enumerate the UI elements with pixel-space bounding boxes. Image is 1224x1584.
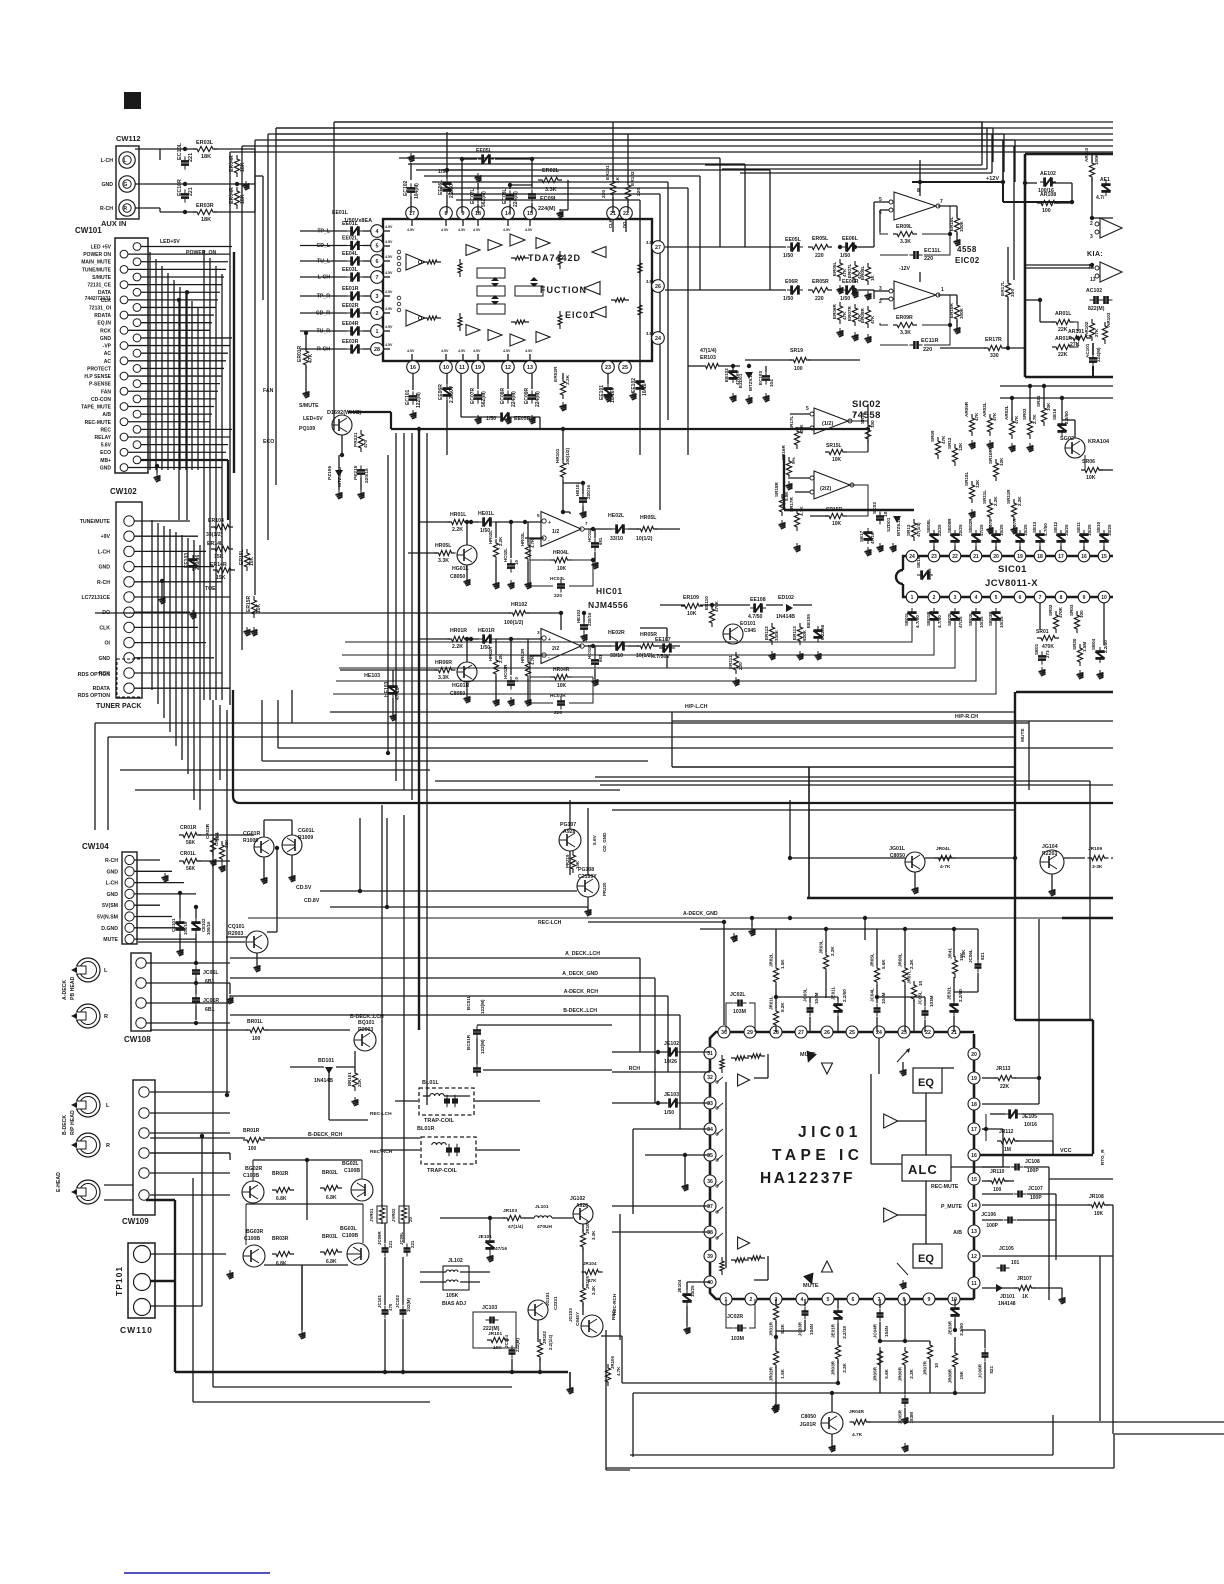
svg-text:EIC02: EIC02 bbox=[955, 256, 980, 265]
svg-text:HE103: HE103 bbox=[364, 673, 380, 679]
svg-text:104: 104 bbox=[769, 379, 774, 387]
svg-text:GND: GND bbox=[101, 182, 113, 188]
svg-text:TP101: TP101 bbox=[114, 1266, 124, 1296]
svg-text:TDA7442D: TDA7442D bbox=[528, 253, 581, 263]
svg-text:SR20: SR20 bbox=[1072, 638, 1077, 650]
svg-text:JG102: JG102 bbox=[570, 1196, 585, 1202]
svg-text:25: 25 bbox=[622, 365, 628, 371]
svg-text:HR03R: HR03R bbox=[520, 648, 525, 663]
svg-text:HR02R: HR02R bbox=[488, 646, 493, 661]
svg-text:JR02R: JR02R bbox=[769, 1366, 774, 1381]
svg-text:BG03R: BG03R bbox=[246, 1229, 264, 1235]
svg-text:ER101: ER101 bbox=[605, 165, 611, 180]
svg-text:A_DECK..LCH: A_DECK..LCH bbox=[565, 951, 600, 957]
svg-text:SE10: SE10 bbox=[1096, 521, 1101, 533]
svg-text:EE06R: EE06R bbox=[842, 279, 859, 285]
svg-text:4.5V: 4.5V bbox=[473, 228, 481, 232]
svg-text:100: 100 bbox=[870, 420, 875, 428]
svg-text:CR01R: CR01R bbox=[180, 825, 197, 831]
svg-text:7: 7 bbox=[585, 521, 588, 526]
svg-text:22: 22 bbox=[952, 554, 958, 560]
svg-text:AE102: AE102 bbox=[1040, 171, 1056, 177]
svg-text:33: 33 bbox=[707, 1101, 713, 1107]
svg-text:7: 7 bbox=[940, 199, 943, 205]
svg-text:19: 19 bbox=[475, 365, 481, 371]
svg-text:JC105: JC105 bbox=[999, 1246, 1014, 1252]
svg-text:220: 220 bbox=[815, 253, 824, 259]
svg-text:CE101: CE101 bbox=[171, 918, 176, 932]
svg-text:JE01L: JE01L bbox=[831, 986, 836, 1000]
svg-text:H.P SENSE: H.P SENSE bbox=[84, 374, 111, 380]
svg-text:C100B: C100B bbox=[342, 1233, 358, 1239]
svg-text:BG02L: BG02L bbox=[342, 1161, 360, 1167]
svg-text:47K: 47K bbox=[870, 315, 875, 324]
svg-text:5.6V: 5.6V bbox=[592, 834, 598, 845]
svg-text:HE01R: HE01R bbox=[478, 628, 495, 634]
svg-text:RDATA: RDATA bbox=[94, 313, 111, 319]
svg-text:7: 7 bbox=[376, 275, 379, 281]
svg-text:27: 27 bbox=[655, 245, 661, 251]
svg-text:18K: 18K bbox=[201, 154, 211, 160]
svg-text:+: + bbox=[548, 637, 551, 643]
svg-text:BQ101: BQ101 bbox=[358, 1020, 375, 1026]
svg-text:HR101: HR101 bbox=[555, 448, 560, 463]
svg-text:JR109: JR109 bbox=[1088, 846, 1102, 852]
svg-text:220: 220 bbox=[601, 190, 607, 198]
svg-text:330: 330 bbox=[1010, 289, 1016, 297]
svg-text:47K: 47K bbox=[1014, 415, 1019, 424]
svg-text:GND: GND bbox=[106, 869, 118, 875]
svg-text:JG103: JG103 bbox=[568, 1308, 573, 1322]
svg-text:C8050: C8050 bbox=[450, 691, 465, 697]
svg-text:EE107: EE107 bbox=[655, 637, 671, 643]
svg-text:5%: 5% bbox=[791, 457, 796, 464]
svg-text:5: 5 bbox=[537, 513, 540, 518]
svg-text:JC108: JC108 bbox=[1025, 1159, 1040, 1165]
svg-text:47(1/4): 47(1/4) bbox=[700, 348, 717, 354]
svg-text:100: 100 bbox=[993, 1187, 1002, 1193]
svg-text:HE02R: HE02R bbox=[608, 630, 625, 636]
svg-text:EC08L: EC08L bbox=[502, 188, 508, 204]
svg-text:R-CH: R-CH bbox=[317, 347, 330, 353]
svg-text:6.8K: 6.8K bbox=[276, 1196, 287, 1202]
svg-text:JR04R: JR04R bbox=[849, 1409, 864, 1415]
svg-text:220: 220 bbox=[815, 296, 824, 302]
svg-text:ER06R: ER06R bbox=[832, 304, 837, 319]
svg-text:8: 8 bbox=[1060, 595, 1063, 601]
svg-text:SE17: SE17 bbox=[859, 530, 864, 542]
svg-text:33(1/2): 33(1/2) bbox=[206, 532, 223, 538]
svg-text:BR03L: BR03L bbox=[322, 1234, 338, 1240]
svg-text:HR02L: HR02L bbox=[488, 530, 493, 544]
svg-text:2.2/50: 2.2/50 bbox=[958, 989, 963, 1002]
svg-text:ER08L: ER08L bbox=[860, 266, 865, 280]
svg-text:ER102: ER102 bbox=[630, 171, 636, 186]
svg-text:2.2K: 2.2K bbox=[452, 527, 463, 533]
svg-text:JR108: JR108 bbox=[1089, 1194, 1104, 1200]
svg-text:KRA104: KRA104 bbox=[1088, 439, 1110, 445]
svg-text:CD_L: CD_L bbox=[316, 243, 330, 249]
svg-text:100P: 100P bbox=[1027, 1168, 1039, 1174]
svg-text:16: 16 bbox=[1081, 554, 1087, 560]
svg-text:H/P-R.CH: H/P-R.CH bbox=[955, 714, 978, 720]
svg-text:ER112: ER112 bbox=[764, 626, 769, 640]
svg-text:RDATA: RDATA bbox=[93, 686, 111, 692]
svg-text:EE102: EE102 bbox=[724, 368, 729, 382]
svg-text:22K: 22K bbox=[1058, 327, 1068, 333]
svg-text:1.5K: 1.5K bbox=[780, 1368, 785, 1378]
svg-text:4: 4 bbox=[801, 1297, 804, 1303]
svg-text:104M: 104M bbox=[814, 992, 819, 1004]
svg-text:SZD01: SZD01 bbox=[886, 517, 891, 532]
svg-text:CG01R: CG01R bbox=[243, 831, 261, 837]
svg-text:122(M): 122(M) bbox=[480, 999, 485, 1014]
svg-text:RTG_R: RTG_R bbox=[1100, 1149, 1105, 1165]
svg-text:TAPE_MUTE: TAPE_MUTE bbox=[81, 405, 112, 411]
svg-text:4.5V: 4.5V bbox=[525, 349, 533, 353]
svg-text:23: 23 bbox=[605, 365, 611, 371]
svg-text:10/25: 10/25 bbox=[999, 616, 1004, 628]
svg-text:1/50: 1/50 bbox=[664, 1110, 674, 1116]
svg-text:FAN: FAN bbox=[101, 389, 111, 395]
svg-text:B-DECK_RCH: B-DECK_RCH bbox=[540, 1021, 542, 1022]
svg-text:28: 28 bbox=[374, 347, 380, 353]
svg-text:920K: 920K bbox=[802, 629, 807, 641]
svg-text:TP_R: TP_R bbox=[317, 294, 331, 300]
svg-text:22: 22 bbox=[925, 1030, 931, 1036]
svg-text:JE105: JE105 bbox=[1022, 1114, 1037, 1120]
svg-text:3.5V: 3.5V bbox=[646, 331, 655, 336]
svg-text:220: 220 bbox=[738, 662, 743, 670]
svg-text:SE04: SE04 bbox=[1091, 638, 1096, 650]
svg-text:BG02R: BG02R bbox=[245, 1166, 263, 1172]
svg-text:L-CH: L-CH bbox=[101, 158, 114, 164]
svg-text:10K: 10K bbox=[1046, 402, 1051, 411]
svg-text:5: 5 bbox=[995, 595, 998, 601]
svg-text:ER10R: ER10R bbox=[949, 303, 954, 318]
svg-text:EE06L: EE06L bbox=[438, 180, 444, 195]
svg-text:33/10: 33/10 bbox=[610, 653, 623, 659]
svg-text:2.2K: 2.2K bbox=[1017, 496, 1022, 506]
svg-text:470UH: 470UH bbox=[537, 1224, 552, 1230]
svg-text:2: 2 bbox=[879, 299, 882, 305]
svg-text:PROTECT: PROTECT bbox=[87, 366, 111, 372]
svg-text:ER02L: ER02L bbox=[542, 168, 560, 174]
svg-text:SE11: SE11 bbox=[1076, 522, 1081, 533]
svg-text:9: 9 bbox=[1083, 595, 1086, 601]
svg-text:3.3K: 3.3K bbox=[900, 239, 911, 245]
svg-text:EC11R: EC11R bbox=[921, 338, 938, 344]
svg-text:SE02L: SE02L bbox=[947, 612, 952, 626]
svg-text:SIC02: SIC02 bbox=[852, 399, 881, 410]
svg-text:A/B: A/B bbox=[953, 1230, 962, 1236]
svg-text:15K: 15K bbox=[216, 575, 226, 581]
svg-text:4.7/: 4.7/ bbox=[1096, 195, 1105, 201]
svg-text:222(M): 222(M) bbox=[515, 1338, 520, 1352]
svg-text:GND: GND bbox=[100, 465, 112, 471]
svg-text:10/25: 10/25 bbox=[690, 1285, 695, 1297]
svg-text:JC09R: JC09R bbox=[377, 1231, 382, 1245]
svg-text:AR02L: AR02L bbox=[1004, 405, 1009, 420]
svg-text:C945Y: C945Y bbox=[575, 1312, 580, 1326]
svg-text:JE01R: JE01R bbox=[831, 1323, 836, 1338]
svg-text:221: 221 bbox=[188, 153, 194, 162]
svg-text:12K: 12K bbox=[975, 479, 980, 488]
svg-text:221: 221 bbox=[388, 1240, 393, 1248]
svg-text:BC01R: BC01R bbox=[466, 1034, 471, 1050]
svg-text:100: 100 bbox=[794, 366, 803, 372]
svg-text:EC103: EC103 bbox=[758, 371, 763, 385]
svg-text:KIA:: KIA: bbox=[1087, 251, 1103, 258]
svg-text:JIC01: JIC01 bbox=[798, 1124, 862, 1141]
svg-text:EE01L: EE01L bbox=[332, 210, 349, 216]
svg-text:ER09R: ER09R bbox=[896, 315, 913, 321]
svg-text:5.6K: 5.6K bbox=[881, 959, 886, 969]
svg-text:0.22/50: 0.22/50 bbox=[820, 624, 825, 640]
svg-text:CD-CON: CD-CON bbox=[91, 397, 111, 403]
svg-text:TRAP-COIL: TRAP-COIL bbox=[424, 1118, 455, 1124]
svg-text:TAPE IC: TAPE IC bbox=[772, 1147, 864, 1164]
svg-text:JR103: JR103 bbox=[503, 1208, 517, 1214]
svg-text:EE06L: EE06L bbox=[842, 236, 859, 242]
svg-text:AR110: AR110 bbox=[1084, 148, 1089, 162]
svg-text:POWER_ON: POWER_ON bbox=[186, 250, 217, 256]
svg-text:EC09L: EC09L bbox=[540, 196, 558, 202]
svg-text:TOE: TOE bbox=[205, 586, 216, 592]
svg-text:47/25: 47/25 bbox=[979, 524, 984, 536]
svg-text:17: 17 bbox=[1058, 554, 1064, 560]
svg-text:13: 13 bbox=[1090, 277, 1096, 283]
svg-text:PQ109: PQ109 bbox=[299, 426, 315, 432]
svg-text:R1009: R1009 bbox=[243, 838, 258, 844]
svg-text:220/16: 220/16 bbox=[587, 612, 592, 626]
svg-text:3.3K: 3.3K bbox=[591, 1230, 596, 1240]
svg-text:R2203: R2203 bbox=[1042, 851, 1057, 857]
svg-text:EC07R: EC07R bbox=[470, 387, 476, 404]
svg-text:4.7/50: 4.7/50 bbox=[748, 614, 763, 620]
svg-text:18K: 18K bbox=[240, 162, 246, 172]
svg-text:4.7/50: 4.7/50 bbox=[915, 615, 920, 628]
svg-text:20: 20 bbox=[993, 554, 999, 560]
svg-text:JG01L: JG01L bbox=[889, 846, 906, 852]
svg-text:40: 40 bbox=[707, 1280, 713, 1286]
svg-text:HC03R: HC03R bbox=[550, 693, 566, 699]
svg-text:4.5V: 4.5V bbox=[503, 228, 511, 232]
svg-text:10K: 10K bbox=[832, 521, 842, 527]
svg-text:A928: A928 bbox=[563, 829, 576, 835]
svg-text:10K: 10K bbox=[557, 683, 567, 689]
svg-text:CQ101: CQ101 bbox=[228, 924, 245, 930]
svg-text:BC01L: BC01L bbox=[466, 995, 471, 1010]
svg-text:-12V: -12V bbox=[899, 266, 910, 272]
svg-text:JG101: JG101 bbox=[545, 1292, 550, 1306]
svg-text:H/P-L.CH: H/P-L.CH bbox=[685, 704, 708, 710]
svg-text:R: R bbox=[124, 206, 128, 212]
svg-text:10: 10 bbox=[934, 1363, 939, 1369]
svg-text:REC-LCH: REC-LCH bbox=[538, 920, 562, 926]
svg-text:BR02L: BR02L bbox=[322, 1170, 338, 1176]
svg-text:L: L bbox=[104, 968, 108, 974]
svg-text:SE16: SE16 bbox=[1052, 408, 1057, 420]
svg-text:4.5V: 4.5V bbox=[458, 349, 466, 353]
svg-text:JR113: JR113 bbox=[996, 1066, 1011, 1072]
svg-text:JR41: JR41 bbox=[948, 948, 953, 959]
svg-text:EC08R: EC08R bbox=[500, 387, 506, 404]
svg-text:224(M): 224(M) bbox=[535, 391, 541, 407]
svg-text:(1/2): (1/2) bbox=[822, 421, 833, 427]
svg-text:100: 100 bbox=[1079, 610, 1084, 618]
svg-text:EE01R: EE01R bbox=[342, 286, 359, 292]
svg-text:HR01L: HR01L bbox=[450, 512, 467, 518]
svg-text:220: 220 bbox=[554, 593, 562, 599]
svg-text:C8050: C8050 bbox=[801, 1414, 816, 1420]
svg-text:10/16: 10/16 bbox=[642, 383, 648, 396]
svg-text:4: 4 bbox=[975, 595, 978, 601]
svg-text:4.5V: 4.5V bbox=[385, 343, 393, 347]
svg-text:L: L bbox=[106, 1103, 110, 1109]
svg-text:JC05L: JC05L bbox=[918, 991, 923, 1005]
svg-text:JR106: JR106 bbox=[610, 1356, 615, 1369]
svg-text:POWER ON: POWER ON bbox=[83, 252, 111, 258]
svg-text:MUTE: MUTE bbox=[803, 1283, 819, 1289]
svg-text:27K: 27K bbox=[1094, 328, 1099, 337]
svg-text:10/25: 10/25 bbox=[1064, 524, 1069, 536]
svg-text:S/MUTE: S/MUTE bbox=[299, 403, 319, 409]
svg-text:JR07L: JR07L bbox=[907, 970, 912, 984]
svg-text:BR03R: BR03R bbox=[272, 1236, 289, 1242]
svg-text:JL102: JL102 bbox=[448, 1258, 463, 1264]
svg-text:JVR02: JVR02 bbox=[391, 1208, 396, 1222]
svg-text:EC102: EC102 bbox=[403, 180, 409, 196]
svg-text:HC01L: HC01L bbox=[587, 528, 592, 542]
svg-text:2.2K: 2.2K bbox=[842, 1362, 847, 1372]
svg-text:26: 26 bbox=[655, 284, 661, 290]
svg-text:AR102: AR102 bbox=[1084, 321, 1089, 336]
svg-text:100K: 100K bbox=[959, 307, 964, 319]
svg-text:AR01L: AR01L bbox=[1055, 311, 1072, 317]
svg-text:R-CH: R-CH bbox=[105, 858, 118, 864]
svg-text:1K: 1K bbox=[615, 176, 621, 183]
svg-text:SR18: SR18 bbox=[860, 412, 865, 424]
svg-text:EE109: EE109 bbox=[806, 614, 811, 628]
svg-text:20: 20 bbox=[408, 1217, 413, 1222]
svg-text:TU_L: TU_L bbox=[317, 259, 331, 265]
svg-text:10K: 10K bbox=[575, 860, 580, 869]
svg-text:10K: 10K bbox=[687, 611, 697, 617]
svg-text:HR05L: HR05L bbox=[435, 543, 452, 549]
svg-text:10K: 10K bbox=[832, 457, 842, 463]
svg-text:681: 681 bbox=[598, 537, 603, 545]
svg-text:21: 21 bbox=[973, 554, 979, 560]
svg-text:4.5V: 4.5V bbox=[385, 271, 393, 275]
svg-text:R/P HEAD: R/P HEAD bbox=[70, 1110, 76, 1135]
svg-text:ER17L: ER17L bbox=[1000, 281, 1006, 296]
svg-text:JR105: JR105 bbox=[585, 1276, 590, 1289]
svg-text:13: 13 bbox=[971, 1229, 977, 1235]
svg-text:3-3K: 3-3K bbox=[1092, 864, 1103, 870]
svg-text:JR03L: JR03L bbox=[819, 940, 824, 954]
svg-text:AUX IN: AUX IN bbox=[101, 219, 126, 228]
svg-text:47(1/4): 47(1/4) bbox=[916, 522, 921, 537]
svg-text:AR101: AR101 bbox=[1068, 329, 1084, 335]
svg-text:JC06L: JC06L bbox=[968, 949, 973, 963]
svg-text:104(M): 104(M) bbox=[414, 183, 420, 199]
svg-text:B-DECK_RCH: B-DECK_RCH bbox=[308, 1132, 343, 1138]
svg-text:C100B: C100B bbox=[344, 1168, 360, 1174]
svg-text:4.5V: 4.5V bbox=[385, 325, 393, 329]
svg-text:10/26: 10/26 bbox=[664, 1059, 677, 1065]
svg-text:4.7/50V: 4.7/50V bbox=[652, 654, 670, 660]
svg-text:102(M): 102(M) bbox=[406, 1298, 411, 1312]
svg-text:821: 821 bbox=[989, 1366, 994, 1374]
svg-text:4.5V: 4.5V bbox=[503, 349, 511, 353]
svg-text:LED+5V: LED+5V bbox=[160, 239, 180, 245]
svg-text:A-DECK_RCH: A-DECK_RCH bbox=[564, 989, 599, 995]
svg-text:JR02L: JR02L bbox=[769, 953, 774, 967]
svg-text:EE103: EE103 bbox=[184, 553, 190, 568]
svg-text:14: 14 bbox=[971, 1203, 977, 1209]
svg-text:32: 32 bbox=[707, 1075, 713, 1081]
svg-text:15: 15 bbox=[1101, 554, 1107, 560]
svg-text:6: 6 bbox=[852, 1297, 855, 1303]
svg-text:MUTE: MUTE bbox=[800, 1052, 816, 1058]
svg-text:100P: 100P bbox=[1030, 1195, 1042, 1201]
svg-text:4.5V: 4.5V bbox=[441, 228, 449, 232]
svg-text:HE02L: HE02L bbox=[608, 513, 625, 519]
svg-text:BL01L: BL01L bbox=[422, 1080, 439, 1086]
svg-text:BIAS ADJ: BIAS ADJ bbox=[442, 1301, 466, 1307]
svg-text:15K: 15K bbox=[959, 1370, 964, 1379]
svg-text:EQ: EQ bbox=[918, 1253, 934, 1265]
svg-text:REC-LCH: REC-LCH bbox=[370, 1111, 392, 1117]
svg-text:L-CH: L-CH bbox=[98, 549, 111, 555]
svg-text:ECO: ECO bbox=[100, 450, 111, 456]
svg-text:EE03R: EE03R bbox=[342, 339, 359, 345]
svg-text:330: 330 bbox=[990, 353, 999, 359]
svg-text:3: 3 bbox=[954, 595, 957, 601]
svg-text:8.2K: 8.2K bbox=[780, 1323, 785, 1333]
svg-text:37: 37 bbox=[707, 1204, 713, 1210]
svg-text:MB+: MB+ bbox=[100, 458, 111, 464]
svg-text:NJM4556: NJM4556 bbox=[588, 600, 628, 610]
svg-text:224(M): 224(M) bbox=[1096, 347, 1101, 362]
svg-text:6: 6 bbox=[376, 259, 379, 265]
svg-text:5V(SM: 5V(SM bbox=[102, 903, 118, 909]
svg-text:SR10L: SR10L bbox=[964, 472, 969, 486]
svg-text:ER09L: ER09L bbox=[896, 224, 913, 230]
svg-text:3.3K: 3.3K bbox=[591, 1285, 596, 1295]
svg-text:220: 220 bbox=[636, 188, 642, 196]
svg-text:JC101: JC101 bbox=[377, 1295, 382, 1308]
svg-text:5.6V: 5.6V bbox=[101, 443, 112, 449]
svg-text:SR11R: SR11R bbox=[1006, 489, 1011, 504]
svg-text:3.3K: 3.3K bbox=[438, 558, 449, 564]
svg-text:100(1/2): 100(1/2) bbox=[565, 447, 570, 465]
svg-text:CG01L: CG01L bbox=[298, 828, 316, 834]
svg-text:A/B: A/B bbox=[102, 412, 111, 418]
svg-text:CW108: CW108 bbox=[124, 1035, 151, 1044]
svg-text:R-CH: R-CH bbox=[97, 580, 110, 586]
svg-text:2/2: 2/2 bbox=[552, 646, 559, 652]
svg-text:+12V: +12V bbox=[986, 176, 999, 182]
svg-text:ER110: ER110 bbox=[704, 596, 709, 610]
svg-text:BR01L: BR01L bbox=[247, 1019, 263, 1025]
svg-text:TUNER PACK: TUNER PACK bbox=[96, 703, 141, 710]
svg-text:SR19: SR19 bbox=[790, 348, 803, 354]
svg-text:A928: A928 bbox=[576, 1203, 588, 1209]
svg-text:103M: 103M bbox=[733, 1009, 746, 1015]
svg-text:1/2: 1/2 bbox=[552, 529, 559, 535]
